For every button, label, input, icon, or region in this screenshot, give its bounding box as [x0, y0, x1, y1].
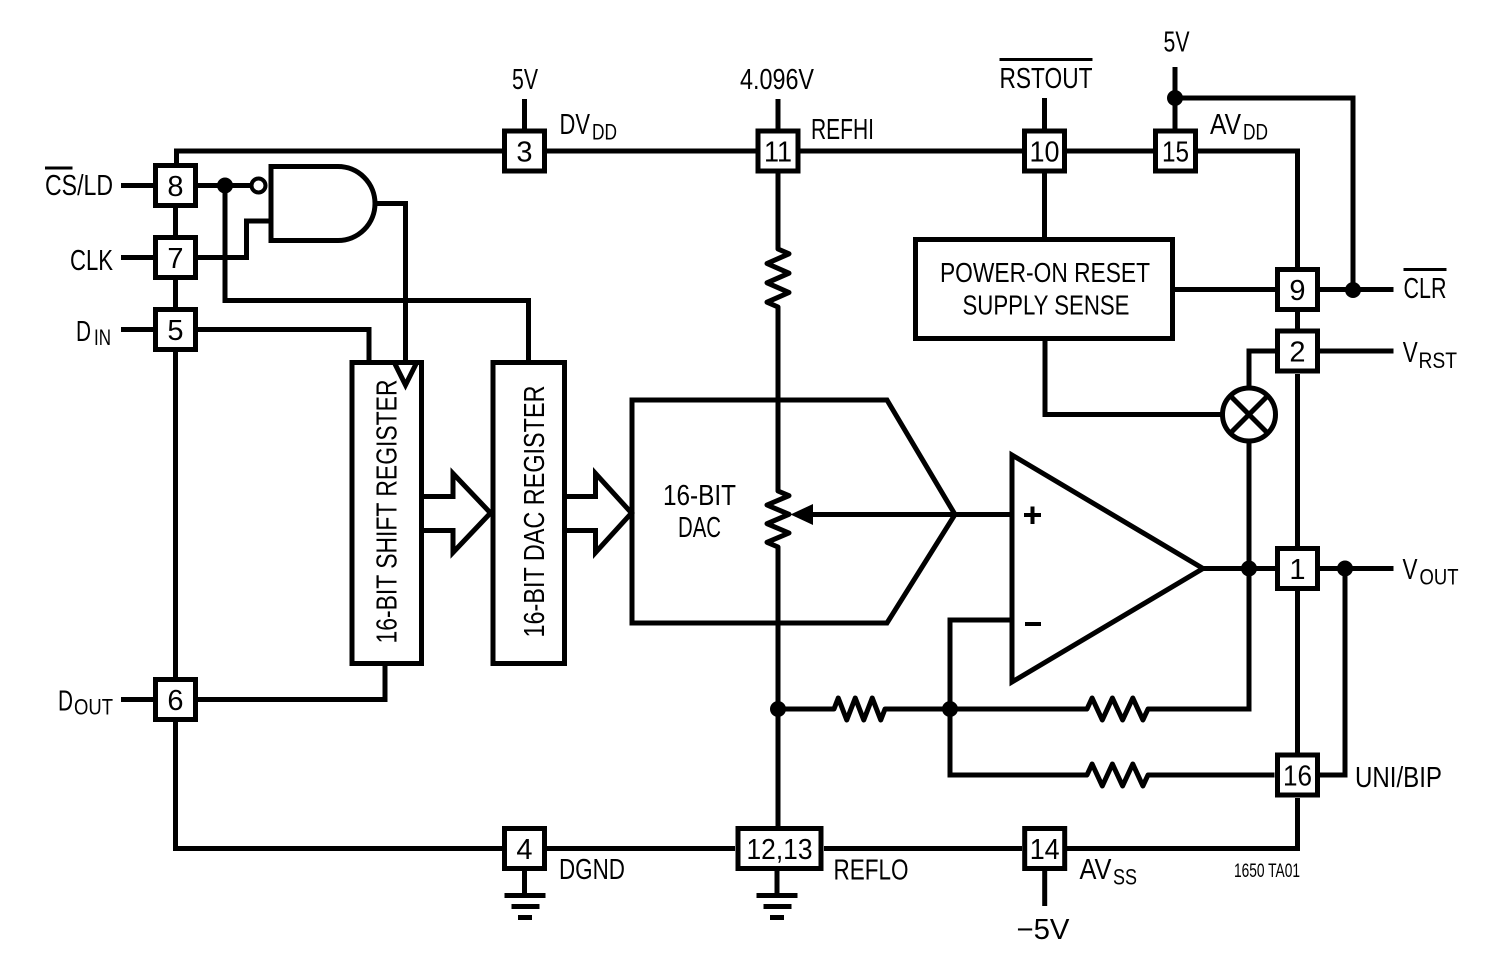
wire DAC wiper to op-amp plus input: [810, 512, 1012, 517]
svg-text:4.096V: 4.096V: [740, 64, 815, 96]
wire DOUT label stub: [121, 697, 153, 702]
svg-text:D: D: [76, 316, 91, 348]
wire POR block to pin9: [1175, 287, 1275, 292]
svg-text:CLR: CLR: [1404, 273, 1447, 305]
wire top rail DVDD/REFHI segment: [174, 149, 502, 154]
ground stub below pin12,13: [775, 871, 780, 893]
pin box 14: [1025, 829, 1065, 869]
wire inverting node to op-amp minus input: [950, 620, 1012, 709]
pin box 4: [505, 829, 545, 869]
wire ladder resistor to REFLO node: [778, 707, 834, 712]
svg-text:5: 5: [167, 315, 183, 347]
svg-text:CLK: CLK: [70, 245, 113, 277]
svg-text:16-BIT: 16-BIT: [663, 480, 736, 512]
wire 4.096V stub above pin11: [776, 99, 781, 129]
svg-text:OUT: OUT: [1420, 565, 1459, 590]
wire CLK pin7 to NAND lower input: [198, 221, 271, 258]
pin box 11: [758, 131, 798, 171]
wire pin2 to switch top: [1249, 351, 1275, 389]
svg-text:RST: RST: [1419, 348, 1458, 373]
svg-text:9: 9: [1289, 275, 1305, 307]
wire right column pin9 to pin2: [1295, 312, 1300, 329]
wire top rail pin10 to pin15: [1067, 149, 1153, 154]
wire node to ladder resistor: [885, 707, 950, 712]
wire top rail pin3 to pin11: [547, 149, 756, 154]
wire bottom rail pin12,13 to pin14: [824, 846, 1022, 851]
wire bottom rail pin4 to pin12,13: [547, 846, 735, 851]
svg-text:D: D: [58, 686, 73, 718]
wire pin2 to VRST label: [1320, 349, 1394, 354]
svg-text:10: 10: [1030, 137, 1060, 169]
pin box 3: [505, 131, 545, 171]
svg-text:DV: DV: [560, 109, 591, 141]
svg-text:−5V: −5V: [1017, 914, 1071, 946]
svg-text:5V: 5V: [1164, 27, 1190, 59]
wire potentiometer down to REFLO node: [776, 547, 781, 709]
svg-text:OUT: OUT: [74, 695, 113, 720]
wire pin7 to pin5: [173, 279, 178, 308]
overline of CLR: [1404, 268, 1447, 271]
wire pin16 to VOUT node: [1320, 569, 1345, 776]
svg-text:DGND: DGND: [559, 854, 625, 886]
wire right column pin2 to pin1: [1295, 374, 1300, 546]
node junction REFLO ladder: [770, 701, 786, 717]
wire bottom rail pin14 to pin16 column: [1067, 798, 1298, 849]
svg-text:14: 14: [1030, 834, 1060, 866]
svg-text:12,13: 12,13: [747, 834, 813, 866]
wire inverting node down to UNI/BIP row: [950, 709, 1087, 775]
shift register clock arrowhead: [395, 364, 416, 385]
svg-text:11: 11: [764, 137, 792, 169]
pin box 15: [1156, 131, 1196, 171]
wire pin9 to CLR label: [1320, 287, 1394, 292]
svg-text:SUPPLY SENSE: SUPPLY SENSE: [963, 290, 1130, 321]
potentiometer wiper arrow: [791, 504, 814, 525]
ground stub below pin4: [522, 871, 527, 893]
pin box 10: [1025, 131, 1065, 171]
resistor R-REFHI vertical zigzag: [767, 249, 789, 307]
wire POR block to switch: [1045, 341, 1222, 415]
op-amp minus sign: [1025, 622, 1041, 626]
wire CLK label stub: [121, 255, 153, 260]
svg-text:5V: 5V: [512, 64, 538, 96]
wire op-amp output to pin1: [1203, 566, 1275, 571]
wire switch bottom to output node: [1247, 441, 1252, 569]
switch S1 X mark: [1230, 395, 1269, 434]
pin box 1: [1278, 549, 1318, 589]
svg-text:3: 3: [516, 137, 532, 169]
wire pin10 down to POR block: [1042, 171, 1047, 237]
svg-text:REFHI: REFHI: [811, 114, 874, 146]
svg-text:IN: IN: [94, 325, 111, 350]
svg-text:1650 TA01: 1650 TA01: [1234, 861, 1300, 882]
wire left column top corner: [174, 149, 179, 165]
wire REFLO node down to pin12,13: [776, 709, 781, 826]
wire RSTOUT stub above pin10: [1042, 98, 1047, 129]
svg-text:AV: AV: [1210, 109, 1242, 141]
wire UNI/BIP resistor to pin16: [1148, 773, 1275, 778]
wire DIN label stub: [121, 327, 153, 332]
svg-text:DD: DD: [1243, 120, 1268, 145]
node junction VOUT: [1337, 561, 1353, 577]
svg-text:16: 16: [1283, 761, 1312, 793]
svg-text:AV: AV: [1080, 854, 1113, 886]
op-amp U2: [1012, 455, 1203, 682]
svg-text:15: 15: [1162, 137, 1189, 169]
node junction op-amp output: [1241, 561, 1257, 577]
block arrow shift register to DAC register: [422, 474, 491, 553]
ground symbol DGND: [505, 896, 546, 918]
pin box 5: [156, 310, 196, 350]
wire top rail pin11 to pin10: [801, 149, 1023, 154]
block 16-BIT DAC pentagon: [632, 400, 955, 623]
svg-text:4: 4: [516, 834, 532, 866]
pin box 7: [156, 238, 196, 278]
block 16-BIT SHIFT REGISTER: [352, 363, 422, 664]
wire pin8 to pin7: [173, 207, 178, 236]
svg-text:2: 2: [1289, 337, 1305, 369]
wire pin6 down to bottom rail: [173, 721, 178, 849]
wire 5V stub above pin15: [1173, 67, 1178, 129]
node junction 5V/AVDD: [1167, 90, 1183, 106]
svg-text:CS/LD: CS/LD: [45, 170, 113, 202]
svg-text:1: 1: [1289, 554, 1305, 586]
wire right column pin1 to pin16: [1295, 591, 1300, 753]
svg-text:16-BIT DAC REGISTER: 16-BIT DAC REGISTER: [519, 386, 551, 638]
wire output node down to feedback: [1148, 569, 1249, 710]
block POWER-ON RESET SUPPLY SENSE: [916, 240, 1173, 339]
node junction CS/LD: [217, 178, 233, 194]
switch S1 circle: [1223, 388, 1276, 441]
pin box 12,13: [738, 829, 821, 869]
wire CS/LD label stub: [121, 183, 153, 188]
block arrow DAC register to DAC: [565, 474, 632, 553]
wire 5V stub above pin3: [522, 99, 527, 129]
overline of CS in CS/LD: [45, 167, 73, 170]
svg-text:8: 8: [167, 171, 183, 203]
block 16-BIT DAC REGISTER: [493, 363, 565, 664]
wire bottom rail to pin4: [173, 846, 502, 851]
wire CS/LD to DAC register clock: [225, 186, 529, 363]
node junction inverting ladder: [942, 701, 958, 717]
node junction CLR: [1345, 282, 1361, 298]
wire AVDD pin15 to right column: [1198, 151, 1298, 267]
pin box 16: [1278, 755, 1318, 795]
ground symbol REFLO: [757, 896, 798, 918]
wire -5V stub below pin14: [1042, 871, 1047, 906]
pin box 8: [156, 166, 196, 206]
svg-text:6: 6: [167, 685, 183, 717]
svg-text:POWER-ON RESET: POWER-ON RESET: [940, 257, 1150, 288]
resistor R-feedback zigzag: [1087, 698, 1148, 720]
svg-text:V: V: [1403, 554, 1419, 586]
wire REFHI pin11 down to resistor: [776, 171, 781, 249]
svg-text:UNI/BIP: UNI/BIP: [1355, 762, 1442, 794]
NAND gate input bubble: [252, 179, 266, 193]
svg-text:7: 7: [167, 243, 183, 275]
wire feedback resistor to inverting node: [950, 707, 1087, 712]
pin box 2: [1278, 331, 1318, 371]
potentiometer zigzag inside DAC: [767, 491, 789, 547]
svg-text:REFLO: REFLO: [834, 855, 909, 887]
resistor R-UNI/BIP zigzag: [1087, 764, 1148, 786]
wire DIN pin5 to shift register: [198, 330, 369, 363]
wire pin5 down to pin6: [173, 351, 178, 678]
resistor R-ladder zigzag: [834, 698, 885, 720]
wire DOUT pin6 to shift register bottom: [198, 663, 385, 700]
svg-text:DD: DD: [592, 120, 617, 145]
wire resistor to DAC potentiometer: [776, 307, 781, 491]
svg-text:16-BIT SHIFT REGISTER: 16-BIT SHIFT REGISTER: [372, 380, 404, 644]
wire NAND output to shift register clock: [374, 204, 406, 363]
wire pin1 to VOUT label: [1320, 566, 1394, 571]
wire 5V to CLR pull-up: [1175, 98, 1353, 290]
svg-text:DAC: DAC: [678, 512, 721, 544]
op-amp plus sign: [1024, 507, 1041, 525]
NAND gate U1 body: [271, 167, 375, 241]
pin box 9: [1278, 270, 1318, 310]
wire pin8 to NAND input bubble: [198, 183, 250, 188]
svg-text:RSTOUT: RSTOUT: [1000, 63, 1093, 95]
overline of RSTOUT: [1000, 58, 1093, 61]
svg-text:V: V: [1403, 337, 1419, 369]
svg-text:SS: SS: [1113, 865, 1137, 890]
pin box 6: [156, 680, 196, 720]
